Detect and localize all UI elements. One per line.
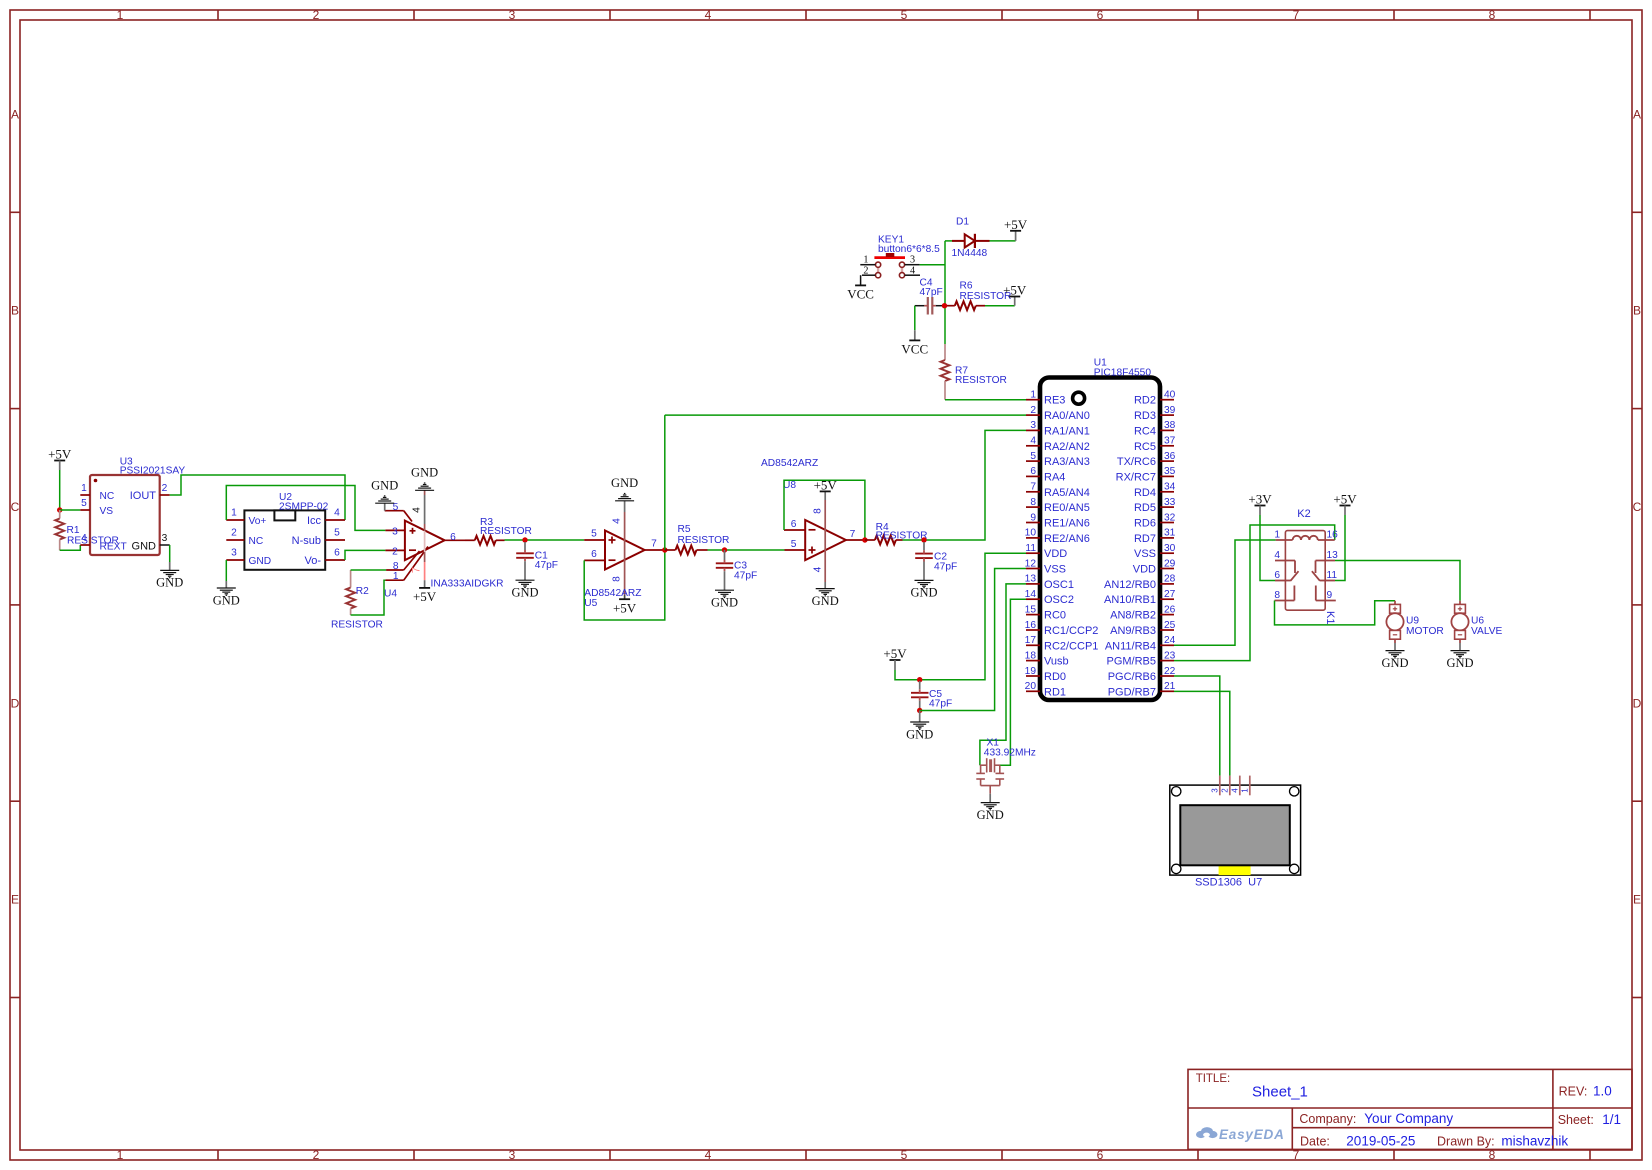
svg-text:31: 31 — [1164, 528, 1176, 539]
valve U6 VALVE — [1451, 601, 1502, 643]
ground (C1) — [511, 580, 538, 599]
ground (U8 pin4) — [812, 589, 839, 608]
svg-text:4: 4 — [611, 518, 622, 524]
capacitor C5 47pF — [911, 681, 952, 711]
svg-text:11: 11 — [1025, 543, 1036, 554]
resistor R4 — [865, 522, 928, 544]
svg-text:433.92MHz: 433.92MHz — [984, 748, 1036, 759]
svg-text:7: 7 — [850, 529, 856, 540]
svg-text:GND: GND — [249, 556, 272, 567]
wire IOUT to U2 Icc — [170, 475, 345, 520]
svg-text:2: 2 — [1220, 788, 1229, 793]
svg-text:13: 13 — [1327, 550, 1339, 561]
pin 16 RC1/CCP2 — [1025, 620, 1099, 637]
svg-text:9: 9 — [1327, 590, 1333, 601]
wire R7 to RE3 — [945, 399, 1026, 401]
svg-text:5: 5 — [901, 1148, 908, 1162]
svg-text:U8: U8 — [783, 480, 796, 491]
pin 2 RA0/AN0 — [1026, 405, 1090, 422]
svg-text:3: 3 — [910, 254, 915, 265]
svg-text:5: 5 — [81, 498, 87, 509]
svg-text:RA2/AN2: RA2/AN2 — [1044, 441, 1090, 453]
svg-text:REXT: REXT — [100, 542, 127, 553]
svg-text:47pF: 47pF — [535, 560, 558, 571]
svg-text:RESISTOR: RESISTOR — [678, 535, 730, 546]
pin 17 RC2/CCP1 — [1025, 635, 1099, 652]
sensor U2 2SMPP-02 — [226, 492, 345, 570]
svg-text:RC5: RC5 — [1134, 441, 1156, 453]
svg-text:SSD1306 U7: SSD1306 U7 — [1195, 877, 1262, 889]
svg-text:33: 33 — [1164, 497, 1176, 508]
svg-text:2: 2 — [313, 8, 320, 22]
svg-text:1: 1 — [1030, 390, 1036, 401]
svg-text:VDD: VDD — [1133, 564, 1156, 576]
wire +5V to K2 pin11 — [1335, 515, 1345, 581]
svg-text:+5V: +5V — [613, 600, 637, 615]
svg-text:VCC: VCC — [901, 342, 928, 357]
wire to RA0/AN0 pin2 — [665, 414, 1026, 416]
svg-text:24: 24 — [1164, 635, 1176, 646]
svg-text:6: 6 — [591, 549, 597, 560]
svg-text:1: 1 — [863, 254, 868, 265]
wire PGD/RB7 to OLED pin2 — [1174, 691, 1230, 775]
pin 28 AN12/RB0 — [1104, 574, 1176, 591]
ground (C2) — [910, 580, 937, 599]
pin 21 PGD/RB7 — [1108, 681, 1176, 698]
svg-text:6: 6 — [1274, 570, 1280, 581]
power VCC (C4) — [901, 340, 928, 356]
svg-text:4: 4 — [81, 533, 87, 544]
pin 35 RX/RC7 — [1116, 466, 1176, 483]
wire +5V to VDD pin11 — [895, 553, 1026, 680]
capacitor C2 47pF — [915, 542, 957, 580]
pin 15 RC0 — [1025, 604, 1066, 621]
svg-text:15: 15 — [1025, 604, 1037, 615]
pin 4 RA2/AN2 — [1026, 436, 1090, 453]
wire +3V to K2 pin6 — [1260, 515, 1275, 581]
ground (U3 pin3) — [156, 545, 183, 590]
svg-text:10: 10 — [1025, 528, 1037, 539]
svg-text:RA0/AN0: RA0/AN0 — [1044, 410, 1090, 422]
op-amp U5 AD8542ARZ — [584, 501, 665, 609]
svg-text:button6*6*8.5: button6*6*8.5 — [878, 244, 940, 255]
wire D1 to +5V — [990, 231, 1016, 241]
diode D1 1N4448 — [945, 217, 990, 260]
svg-text:34: 34 — [1164, 482, 1176, 493]
pin 26 AN8/RB2 — [1110, 604, 1176, 621]
node C5 bottom — [917, 708, 922, 713]
svg-text:PGC/RB6: PGC/RB6 — [1108, 671, 1156, 683]
pin 30 VSS — [1134, 543, 1176, 560]
pin 27 AN10/RB1 — [1104, 589, 1176, 606]
svg-text:7: 7 — [651, 539, 657, 550]
svg-text:GND: GND — [411, 466, 438, 480]
svg-text:+5V: +5V — [883, 646, 907, 661]
svg-text:19: 19 — [1025, 666, 1037, 677]
svg-text:RESISTOR: RESISTOR — [955, 375, 1007, 386]
svg-text:3: 3 — [162, 533, 168, 544]
power +5V (U8 pin8) — [814, 477, 838, 492]
pin 29 VDD — [1133, 558, 1176, 575]
svg-text:3: 3 — [509, 1148, 516, 1162]
svg-text:RC0: RC0 — [1044, 610, 1066, 622]
wire R5 to U8 pin5 — [708, 549, 785, 551]
pin 7 RA5/AN4 — [1026, 482, 1090, 499]
svg-text:NC: NC — [100, 491, 115, 502]
svg-text:29: 29 — [1164, 558, 1176, 569]
svg-text:AN12/RB0: AN12/RB0 — [1104, 579, 1156, 591]
svg-text:3: 3 — [1030, 420, 1036, 431]
svg-text:INA333AIDGKR: INA333AIDGKR — [431, 579, 504, 590]
svg-text:N-sub: N-sub — [292, 535, 321, 547]
wire PGC/RB6 to OLED pin1 — [1174, 676, 1220, 776]
svg-text:GND: GND — [511, 586, 538, 600]
svg-text:EasyEDA: EasyEDA — [1219, 1127, 1285, 1142]
svg-text:R1: R1 — [67, 525, 80, 536]
svg-text:3: 3 — [509, 8, 516, 22]
svg-text:U9: U9 — [1406, 616, 1419, 627]
pin 33 RD5 — [1134, 497, 1176, 514]
svg-text:OSC2: OSC2 — [1044, 594, 1074, 606]
svg-text:23: 23 — [1164, 650, 1176, 661]
svg-text:AN9/RB3: AN9/RB3 — [1110, 625, 1156, 637]
svg-text:26: 26 — [1164, 604, 1176, 615]
svg-text:+5V: +5V — [48, 447, 72, 462]
capacitor C3 47pF — [716, 550, 757, 590]
IC U3 PSSI2021SAY — [80, 457, 185, 556]
power +5V (U3 supply) — [48, 447, 72, 471]
svg-text:11: 11 — [1327, 570, 1338, 581]
wire U5 output to RA0 (vertical) — [664, 415, 666, 550]
svg-text:2: 2 — [231, 528, 237, 539]
svg-text:IOUT: IOUT — [130, 490, 157, 502]
svg-text:+5V: +5V — [1003, 283, 1027, 298]
svg-text:GND: GND — [371, 478, 398, 492]
svg-text:GND: GND — [977, 808, 1004, 822]
node U8 output — [862, 537, 867, 542]
svg-text:14: 14 — [1025, 589, 1037, 600]
ground (U2 pin3) — [213, 560, 240, 607]
svg-text:RD6: RD6 — [1134, 518, 1156, 530]
svg-text:RD2: RD2 — [1134, 395, 1156, 407]
svg-text:Vusb: Vusb — [1044, 656, 1069, 668]
pin 22 PGC/RB6 — [1108, 666, 1176, 683]
MCU U1 PIC18F4550 — [1025, 358, 1176, 700]
svg-text:2: 2 — [392, 547, 398, 558]
node U5 output — [662, 547, 667, 552]
svg-text:R5: R5 — [678, 524, 691, 535]
pushbutton KEY1 button6*6*8.5 — [860, 234, 940, 277]
motor U9 MOTOR — [1386, 601, 1443, 643]
svg-text:8: 8 — [611, 576, 622, 582]
svg-text:6: 6 — [334, 548, 340, 559]
display U7 SSD1306 — [1170, 776, 1301, 889]
svg-text:6: 6 — [450, 532, 456, 543]
svg-text:7: 7 — [1030, 482, 1036, 493]
svg-text:RD3: RD3 — [1134, 410, 1156, 422]
svg-text:22: 22 — [1164, 666, 1176, 677]
pin 9 RE1/AN6 — [1026, 512, 1090, 529]
svg-text:PGD/RB7: PGD/RB7 — [1108, 686, 1156, 698]
resistor R1 — [55, 510, 119, 550]
power VCC (KEY1 pin2) — [847, 275, 874, 301]
pin 14 OSC2 — [1025, 589, 1074, 606]
pin 19 RD0 — [1025, 666, 1066, 683]
svg-text:27: 27 — [1164, 589, 1176, 600]
svg-text:RD0: RD0 — [1044, 671, 1066, 683]
wire R4 to RA1 — [903, 430, 1027, 540]
svg-text:8: 8 — [1489, 8, 1496, 22]
pin 10 RE2/AN6 — [1025, 528, 1090, 545]
svg-text:VS: VS — [100, 506, 114, 517]
svg-text:1N4448: 1N4448 — [952, 248, 988, 259]
svg-text:1: 1 — [231, 508, 237, 519]
svg-text:7: 7 — [411, 567, 423, 573]
power +3V (K2 coil) — [1248, 492, 1272, 516]
svg-text:37: 37 — [1164, 436, 1176, 447]
svg-text:MOTOR: MOTOR — [1406, 626, 1444, 637]
svg-text:1/1: 1/1 — [1602, 1112, 1621, 1127]
wire K2 pin8 to motor — [1275, 601, 1396, 625]
pin 25 AN9/RB3 — [1110, 620, 1176, 637]
wire OSC2 to X1 — [1000, 599, 1026, 765]
svg-text:4: 4 — [812, 566, 823, 572]
svg-text:GND: GND — [812, 594, 839, 608]
svg-text:AD8542ARZ: AD8542ARZ — [761, 458, 818, 469]
svg-text:18: 18 — [1025, 650, 1037, 661]
resistor R2 — [331, 570, 383, 631]
svg-text:2019-05-25: 2019-05-25 — [1346, 1133, 1415, 1148]
svg-text:5: 5 — [334, 528, 340, 539]
resistor R5 — [665, 524, 730, 554]
svg-text:VALVE: VALVE — [1471, 626, 1503, 637]
svg-text:21: 21 — [1164, 681, 1176, 692]
svg-text:GND: GND — [156, 576, 183, 590]
svg-text:6: 6 — [1097, 1148, 1104, 1162]
svg-text:RA5/AN4: RA5/AN4 — [1044, 487, 1090, 499]
node R5/C3 — [722, 547, 727, 552]
svg-text:5: 5 — [791, 539, 797, 550]
svg-text:8: 8 — [812, 508, 823, 514]
pin 24 AN11/RB4 — [1105, 635, 1176, 652]
svg-text:4: 4 — [1274, 550, 1280, 561]
svg-text:12: 12 — [1025, 558, 1037, 569]
svg-text:TX/RC6: TX/RC6 — [1117, 456, 1156, 468]
svg-text:+5V: +5V — [1333, 492, 1357, 507]
svg-text:Vo-: Vo- — [304, 555, 321, 567]
svg-text:GND: GND — [711, 596, 738, 610]
svg-text:Your Company: Your Company — [1364, 1111, 1453, 1126]
pin 20 RD1 — [1025, 681, 1066, 698]
resistor R7 — [941, 344, 1007, 400]
svg-text:E: E — [1633, 893, 1641, 907]
node VS junction — [57, 507, 62, 512]
svg-text:3: 3 — [231, 548, 237, 559]
svg-text:9: 9 — [1030, 512, 1036, 523]
node C4/R6/R7 — [942, 303, 947, 308]
ground (U6) — [1446, 643, 1473, 670]
svg-text:RESISTOR: RESISTOR — [331, 620, 383, 631]
node R3/C1 — [522, 537, 527, 542]
resistor R6 — [947, 281, 1012, 311]
wire Vo- to U4 pin2 — [345, 550, 385, 560]
power +5V (U4 pin7) — [413, 588, 437, 604]
pin 5 RA3/AN3 — [1026, 451, 1090, 468]
svg-text:4: 4 — [910, 265, 915, 276]
svg-text:2: 2 — [313, 1148, 320, 1162]
pin 36 TX/RC6 — [1117, 451, 1176, 468]
ground (C3) — [711, 590, 738, 609]
svg-text:D1: D1 — [956, 217, 969, 228]
svg-text:RE2/AN6: RE2/AN6 — [1044, 533, 1090, 545]
wire U8 feedback pin6 to output — [784, 480, 865, 540]
wire PGM/RB5 to K2 pin16 — [1174, 525, 1335, 661]
svg-text:R2: R2 — [356, 586, 369, 597]
svg-text:6: 6 — [791, 519, 797, 530]
relay K2 — [1274, 508, 1338, 624]
pin 23 PGM/RB5 — [1106, 650, 1175, 667]
svg-text:C: C — [1633, 500, 1642, 514]
svg-text:39: 39 — [1164, 405, 1176, 416]
op-amp U4 INA333AIDGKR — [384, 490, 504, 599]
svg-text:RESISTOR: RESISTOR — [480, 526, 532, 537]
svg-text:VCC: VCC — [847, 287, 874, 302]
svg-text:RE1/AN6: RE1/AN6 — [1044, 518, 1090, 530]
wire +5V to VS node — [59, 470, 61, 510]
svg-text:8: 8 — [1030, 497, 1036, 508]
svg-text:25: 25 — [1164, 620, 1176, 631]
pin 18 Vusb — [1025, 650, 1069, 667]
wire C4 to VCC — [914, 306, 916, 341]
svg-text:Vo+: Vo+ — [249, 516, 267, 527]
pin 39 RD3 — [1134, 405, 1176, 422]
resistor R3 — [465, 517, 532, 545]
power +5V (VDD) — [883, 646, 907, 670]
svg-text:RA3/AN3: RA3/AN3 — [1044, 456, 1090, 468]
svg-text:+3V: +3V — [1248, 492, 1272, 507]
svg-text:GND: GND — [1446, 656, 1473, 670]
svg-text:16: 16 — [1327, 530, 1339, 541]
svg-text:mishavzhik: mishavzhik — [1501, 1133, 1568, 1148]
svg-text:K2: K2 — [1297, 508, 1310, 520]
U1 reference labels — [1094, 358, 1152, 379]
wire key net vertical — [944, 241, 946, 344]
svg-text:VSS: VSS — [1044, 564, 1066, 576]
svg-text:AN8/RB2: AN8/RB2 — [1110, 610, 1156, 622]
svg-text:13: 13 — [1025, 574, 1037, 585]
power +5V (K2) — [1333, 492, 1357, 516]
svg-text:4: 4 — [1030, 436, 1036, 447]
pin 12 VSS — [1025, 558, 1066, 575]
svg-text:32: 32 — [1164, 512, 1176, 523]
svg-text:RA1/AN1: RA1/AN1 — [1044, 425, 1090, 437]
wire K2 pin13 to valve — [1335, 561, 1460, 601]
op-amp U8 AD8542ARZ — [761, 458, 865, 589]
wire C5 to VSS pin12 — [920, 569, 1026, 711]
svg-text:47pF: 47pF — [929, 699, 952, 710]
svg-text:4: 4 — [412, 507, 423, 513]
svg-text:VSS: VSS — [1134, 548, 1156, 560]
svg-text:NC: NC — [249, 536, 264, 547]
svg-text:GND: GND — [906, 727, 933, 741]
wire U5 feedback pin6 to output — [584, 550, 665, 620]
svg-text:B: B — [1633, 304, 1641, 318]
EasyEDA logo — [1196, 1127, 1285, 1142]
power +5V (U5 pin8) — [613, 599, 637, 615]
ground (U4 pin5) — [371, 478, 398, 510]
svg-text:6: 6 — [1097, 8, 1104, 22]
svg-text:5: 5 — [901, 8, 908, 22]
svg-text:4: 4 — [705, 8, 712, 22]
svg-text:Sheet:: Sheet: — [1558, 1113, 1594, 1127]
svg-text:RD1: RD1 — [1044, 686, 1066, 698]
svg-text:AN11/RB4: AN11/RB4 — [1105, 640, 1156, 652]
svg-text:A: A — [1633, 107, 1641, 121]
svg-text:U4: U4 — [384, 588, 397, 599]
svg-text:OSC1: OSC1 — [1044, 579, 1074, 591]
svg-text:B: B — [11, 304, 19, 318]
pin 31 RD7 — [1134, 528, 1176, 545]
svg-text:TITLE:: TITLE: — [1196, 1073, 1231, 1085]
svg-text:17: 17 — [1025, 635, 1037, 646]
svg-text:RD5: RD5 — [1134, 502, 1156, 514]
svg-text:5: 5 — [591, 529, 597, 540]
pin 13 OSC1 — [1025, 574, 1074, 591]
svg-text:1: 1 — [1240, 788, 1249, 793]
svg-text:K1: K1 — [1324, 611, 1336, 624]
svg-text:RE0/AN5: RE0/AN5 — [1044, 502, 1090, 514]
node R4/C2 — [921, 537, 926, 542]
wire R1 to REXT — [60, 545, 81, 550]
svg-text:U5: U5 — [584, 598, 597, 609]
svg-text:PGM/RB5: PGM/RB5 — [1106, 656, 1156, 668]
svg-text:GND: GND — [132, 541, 157, 553]
svg-text:2: 2 — [863, 265, 868, 276]
svg-text:A: A — [11, 107, 19, 121]
svg-text:35: 35 — [1164, 466, 1176, 477]
pin 34 RD4 — [1134, 482, 1176, 499]
svg-text:Company:: Company: — [1299, 1112, 1356, 1126]
svg-text:4: 4 — [334, 508, 340, 519]
ground (C5) — [906, 711, 933, 742]
svg-text:PSSI2021SAY: PSSI2021SAY — [120, 466, 186, 477]
svg-text:RA4: RA4 — [1044, 471, 1065, 483]
wire R2 to U4 pin1 — [351, 580, 386, 615]
svg-text:38: 38 — [1164, 420, 1176, 431]
svg-text:20: 20 — [1025, 681, 1037, 692]
svg-text:4: 4 — [1230, 788, 1239, 793]
svg-text:REV:: REV: — [1559, 1085, 1588, 1099]
svg-text:R6: R6 — [960, 281, 973, 292]
ground (X1) — [977, 794, 1004, 822]
svg-text:RE3: RE3 — [1044, 395, 1065, 407]
wire U4 pin8 to R2 — [351, 569, 387, 571]
ground (U4 pin4) — [411, 466, 438, 491]
wire Vo+ to U4 pin3 — [226, 486, 385, 531]
svg-text:1: 1 — [81, 483, 87, 494]
pin 40 RD2 — [1134, 390, 1176, 407]
wire KEY1 pin3 to net — [920, 264, 945, 266]
svg-text:1: 1 — [393, 571, 399, 582]
svg-text:D: D — [1633, 696, 1642, 710]
svg-text:3: 3 — [1210, 788, 1219, 793]
svg-text:5: 5 — [1030, 451, 1036, 462]
svg-text:1: 1 — [117, 8, 124, 22]
svg-text:47pF: 47pF — [934, 562, 957, 573]
svg-text:6: 6 — [1030, 466, 1036, 477]
svg-text:2: 2 — [1030, 405, 1036, 416]
svg-text:AN10/RB1: AN10/RB1 — [1104, 594, 1156, 606]
